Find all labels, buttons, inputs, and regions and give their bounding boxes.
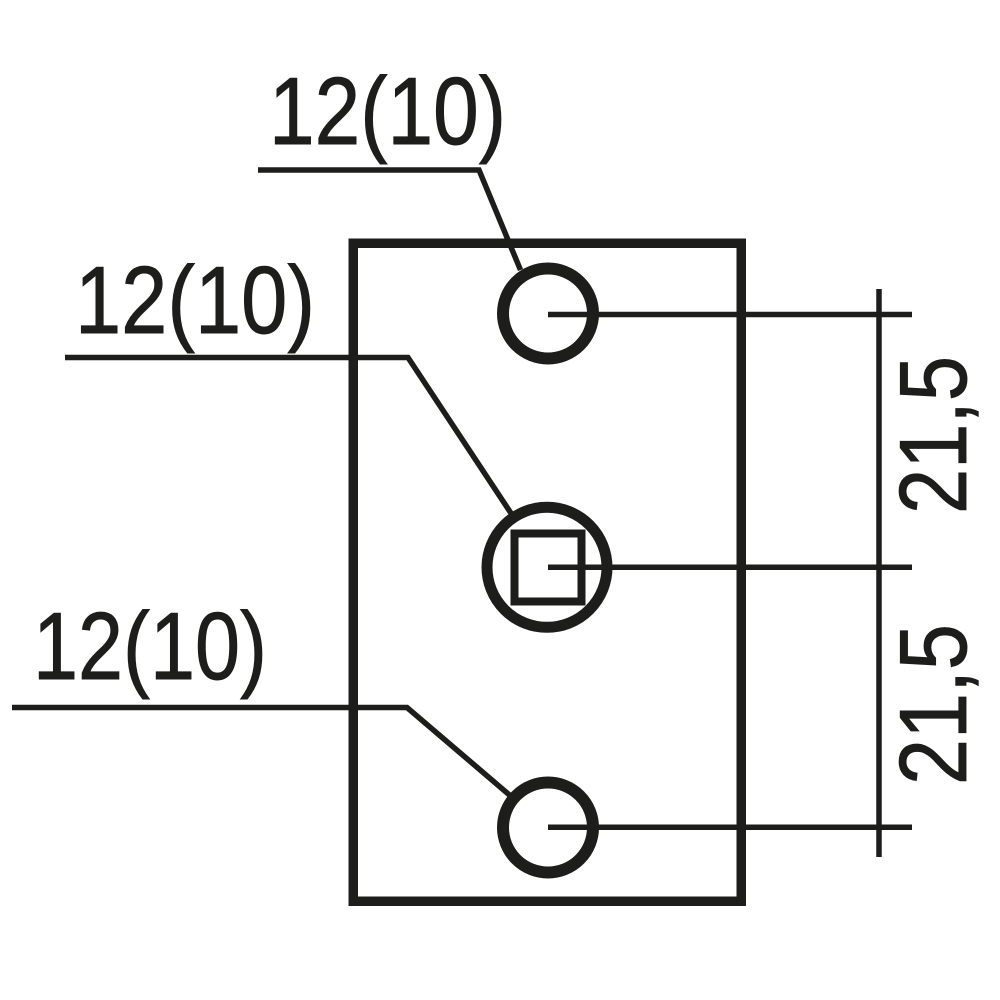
leader 1 <box>258 170 521 270</box>
leader 3 <box>12 708 510 796</box>
svg-text:21,5: 21,5 <box>880 356 987 514</box>
hole middle circle <box>487 507 607 627</box>
leader 2 <box>65 358 512 515</box>
dimension line middle <box>548 565 912 571</box>
hole bottom <box>503 783 593 873</box>
square hole <box>515 534 582 602</box>
hole top <box>503 269 593 359</box>
dimension line bottom <box>548 825 912 831</box>
extension line vertical <box>876 289 882 857</box>
svg-text:12(10): 12(10) <box>269 58 506 165</box>
plate outline <box>353 243 741 901</box>
dimension line top <box>548 312 912 318</box>
svg-text:12(10): 12(10) <box>33 593 267 700</box>
svg-text:21,5: 21,5 <box>880 624 987 785</box>
svg-text:12(10): 12(10) <box>75 247 315 354</box>
